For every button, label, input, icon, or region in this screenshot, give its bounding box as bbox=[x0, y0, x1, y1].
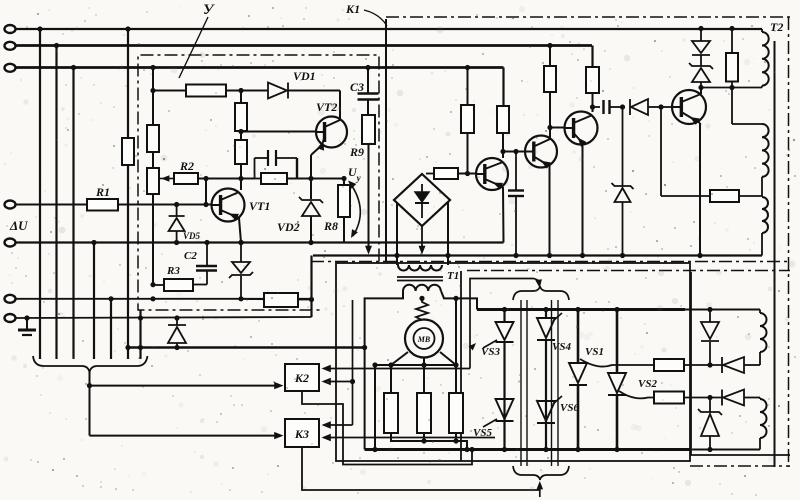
motor module box bbox=[336, 263, 690, 461]
wire T1 left lead bbox=[362, 291, 403, 450]
wire bus v4 bbox=[93, 243, 95, 360]
label VD5 bbox=[183, 231, 201, 241]
wire x661 elbow bbox=[661, 107, 710, 196]
resistor Rb bbox=[586, 67, 599, 112]
resistor Rv1 bbox=[654, 359, 722, 371]
resistor Re bbox=[426, 168, 476, 179]
wire dU upper cont bbox=[118, 204, 212, 206]
wire VT2 emit bbox=[311, 145, 322, 199]
U regulator box bbox=[138, 55, 379, 310]
motor MV zigzag bbox=[416, 296, 428, 320]
resistor Rv6 bbox=[122, 138, 134, 165]
label T1 bbox=[447, 270, 459, 282]
wire brush bus bbox=[372, 362, 456, 367]
svg-text:VT1: VT1 bbox=[249, 199, 270, 213]
thyristor VS3 bbox=[483, 307, 514, 452]
wire rail4 right bbox=[690, 449, 760, 451]
transistor VT2 bbox=[316, 117, 347, 151]
resistor Rc bbox=[497, 106, 509, 158]
relay K3 bbox=[285, 419, 319, 447]
svg-text:VD1: VD1 bbox=[293, 69, 316, 83]
winding T2-2 bbox=[762, 124, 769, 196]
wire rail y299 bbox=[15, 298, 311, 300]
wire bus v2 bbox=[55, 46, 57, 360]
T2 core bbox=[774, 41, 776, 467]
resistor R2 bbox=[159, 173, 212, 184]
right edge dashdot bbox=[788, 17, 790, 467]
svg-text:У: У bbox=[203, 2, 215, 18]
svg-text:R1: R1 bbox=[95, 185, 110, 199]
bridge legs bbox=[394, 202, 450, 265]
transistor Q3 VT5 bbox=[565, 112, 598, 147]
transformer T1 secondary bbox=[403, 285, 441, 291]
wire rail y318 bbox=[15, 317, 312, 318]
transistor VT1 bbox=[212, 189, 245, 246]
wire x622 down bbox=[622, 107, 624, 186]
wire Q1 coll-Q2base bbox=[503, 149, 525, 154]
thyristor VS5 bbox=[483, 399, 514, 427]
wire VT2 coll bbox=[339, 91, 341, 121]
wire branch1 bottom bbox=[580, 359, 654, 367]
label VS4 bbox=[552, 341, 571, 353]
svg-text:К3: К3 bbox=[294, 427, 309, 441]
diode VDs bbox=[630, 99, 672, 115]
diode VD12 bbox=[722, 357, 760, 373]
wire K2 in1 bbox=[322, 279, 535, 373]
capacitor Cs bbox=[604, 100, 626, 114]
wire bus v1 bbox=[39, 29, 41, 359]
wire divider mid bbox=[238, 129, 243, 140]
svg-text:С3: С3 bbox=[350, 80, 364, 94]
diode VD2 zener bbox=[299, 197, 323, 245]
bottom right box bbox=[691, 272, 790, 455]
wire rail2 bbox=[313, 254, 762, 256]
wire K3 in1 bbox=[322, 382, 353, 429]
label R1 bbox=[95, 185, 110, 199]
resistor Rd bbox=[461, 68, 474, 177]
wire Q1 emit bbox=[502, 187, 505, 243]
label VS5 bbox=[473, 427, 492, 439]
resistor Rm2 bbox=[417, 393, 431, 433]
wire rail row3 bbox=[15, 66, 504, 69]
gate brace bottom bbox=[513, 466, 569, 480]
wire rc left bbox=[212, 178, 255, 180]
resistor R4 upper bbox=[147, 125, 159, 168]
svg-text:VS1: VS1 bbox=[585, 346, 604, 358]
wire T1 right lead bbox=[441, 291, 477, 310]
label R2 bbox=[179, 159, 194, 173]
motor MV bbox=[405, 320, 443, 358]
label VD2 bbox=[277, 220, 300, 234]
wire VT2 base bbox=[241, 131, 316, 133]
svg-text:Т1: Т1 bbox=[447, 270, 459, 282]
wire rail row2 bbox=[15, 44, 592, 47]
resistor R8 bbox=[338, 179, 350, 243]
relay K2 bbox=[285, 364, 319, 391]
wire bus v6 bbox=[127, 29, 129, 359]
svg-text:К1: К1 bbox=[345, 2, 360, 16]
wire K2 in2 bbox=[322, 300, 356, 385]
resistor R9 bbox=[362, 115, 375, 247]
motor brush mid bbox=[421, 358, 426, 394]
resistor R1 bbox=[87, 199, 118, 211]
winding T2-4 bbox=[760, 310, 767, 366]
terminal X5 bbox=[5, 239, 16, 247]
svg-text:МВ: МВ bbox=[417, 335, 431, 344]
label C3 bbox=[350, 80, 364, 94]
wire Q3 emit bbox=[580, 143, 585, 258]
wire cap chain bbox=[593, 106, 601, 108]
capacitor C3 bbox=[358, 65, 379, 115]
gate brace top bbox=[513, 286, 569, 300]
rectifier bridge U2 bbox=[394, 174, 450, 226]
resistor Rv2 bbox=[654, 392, 722, 404]
gate arrow bottom bbox=[537, 481, 544, 497]
wire T2-2 top bbox=[732, 88, 762, 125]
resistor R7b bbox=[235, 140, 247, 190]
svg-text:VD2: VD2 bbox=[277, 220, 300, 234]
resistor R6 bbox=[186, 85, 268, 97]
wire rail y347 thick bbox=[127, 346, 365, 349]
label U bbox=[179, 2, 215, 78]
diode VD9 bbox=[692, 26, 710, 55]
label Uy bbox=[348, 165, 362, 183]
wire resistor bottom bus bbox=[391, 433, 470, 452]
resistor Ri bbox=[710, 190, 762, 202]
svg-text:С2: С2 bbox=[184, 250, 197, 262]
wire rail row1 bbox=[15, 28, 762, 30]
wire Q4 emit bbox=[697, 123, 702, 258]
resistor R3 bbox=[150, 279, 193, 301]
wire row3 corner bbox=[465, 65, 504, 106]
svg-text:R9: R9 bbox=[349, 145, 364, 159]
svg-text:VS2: VS2 bbox=[638, 378, 657, 390]
bridge center tap bbox=[419, 226, 426, 255]
wire y87 bbox=[701, 85, 762, 90]
svg-text:VS4: VS4 bbox=[552, 341, 571, 353]
wire K3 out bbox=[302, 447, 539, 490]
svg-text:VS6: VS6 bbox=[560, 402, 579, 414]
diode VD13 bbox=[707, 390, 760, 406]
capacitor C2 bbox=[193, 240, 217, 285]
diode VD10 zener bbox=[689, 55, 713, 90]
bottom right dashdot bbox=[690, 465, 790, 467]
wire K3 in2 bbox=[322, 434, 496, 441]
svg-text:R2: R2 bbox=[179, 159, 194, 173]
terminal X2 bbox=[5, 42, 16, 50]
resistor Rfb bbox=[255, 173, 312, 184]
transistor Q2 VT4 bbox=[525, 136, 557, 169]
terminal X6 bbox=[5, 295, 16, 303]
label VS6 bbox=[560, 402, 579, 414]
wire R2 to base bbox=[203, 176, 208, 207]
resistor Rk bbox=[726, 26, 738, 88]
wire rail y242 bbox=[15, 241, 504, 243]
wire u-top bbox=[150, 65, 155, 125]
thyristor box dashdot bbox=[467, 270, 790, 272]
wire K2 out bbox=[302, 391, 475, 465]
diode VD14 zener bbox=[698, 398, 722, 453]
diode VD11 bbox=[701, 310, 719, 368]
motor brush right bbox=[440, 352, 459, 368]
thyristor VS6 bbox=[537, 396, 562, 423]
transistor Q1 VT3 bbox=[476, 158, 508, 190]
box bottom dashdot bbox=[311, 261, 790, 263]
label VS2 bbox=[638, 378, 657, 390]
svg-text:R8: R8 bbox=[323, 219, 338, 233]
wire branch2 top bbox=[619, 391, 654, 398]
resistor Rm1 bbox=[384, 365, 398, 433]
terminal X4 bbox=[5, 201, 16, 209]
label VS1 bbox=[585, 346, 604, 358]
thyristor VS2 bbox=[608, 307, 626, 452]
wire dU upper bbox=[15, 204, 87, 206]
node bus dots bbox=[37, 26, 143, 350]
label R9 bbox=[349, 145, 364, 159]
wire branch1 top bbox=[685, 307, 760, 312]
transformer T1 primary bbox=[397, 256, 448, 271]
wire Q3 base bbox=[550, 127, 565, 129]
resistor R7a bbox=[235, 103, 247, 131]
label VS3 bbox=[469, 343, 501, 358]
motor brush left bbox=[388, 352, 408, 368]
gate bundle lines bbox=[521, 300, 558, 466]
wire bus v7 bbox=[139, 310, 141, 359]
label VD1 bbox=[293, 69, 316, 83]
winding T2-5 bbox=[760, 398, 767, 450]
wire rail4 bbox=[365, 448, 690, 451]
svg-text:VS3: VS3 bbox=[481, 346, 500, 358]
resistor R10 bbox=[264, 256, 314, 318]
terminal X3 bbox=[5, 64, 16, 72]
wire bus v3 bbox=[72, 68, 74, 360]
wire divider top bbox=[238, 88, 243, 103]
thyristor VS1 bbox=[569, 307, 587, 452]
wire rc to R8 bbox=[308, 176, 346, 181]
diode VD6 bbox=[229, 240, 253, 302]
capacitor Cb bbox=[508, 152, 524, 259]
svg-text:Т2: Т2 bbox=[770, 20, 783, 34]
resistor Rm3 bbox=[449, 296, 463, 433]
label VT1 bbox=[249, 199, 270, 213]
thyristor VS4 bbox=[537, 307, 562, 452]
svg-text:R3: R3 bbox=[166, 265, 180, 277]
diode VD7 bbox=[168, 315, 186, 350]
winding T2-3 bbox=[762, 197, 768, 256]
terminal X1 bbox=[5, 25, 16, 33]
K1 box bbox=[386, 17, 790, 261]
T1 core bbox=[397, 277, 443, 281]
diode VD8 zener bbox=[612, 183, 634, 258]
wire y90 left bbox=[150, 88, 186, 93]
wire y299 to up bbox=[240, 298, 264, 300]
resistor R5 pot bbox=[147, 168, 159, 285]
transistor Q4 VT6 bbox=[672, 90, 706, 125]
capacitor C4 branch bbox=[255, 150, 298, 179]
wire brace tail bbox=[87, 372, 92, 436]
node R9 tail arrow bbox=[365, 246, 372, 255]
gate arrow top bbox=[534, 279, 542, 289]
label R3 bbox=[166, 265, 180, 277]
terminal X7 bbox=[5, 314, 16, 322]
arrow Uy measure bbox=[348, 181, 360, 239]
winding T2-1 bbox=[762, 29, 769, 88]
wire rail3 bbox=[477, 308, 685, 311]
label dU bbox=[9, 218, 28, 233]
wire to K3 bbox=[90, 432, 284, 439]
label T2 bbox=[770, 20, 783, 34]
resistor Ra bbox=[544, 46, 556, 139]
label K1 bbox=[345, 2, 387, 26]
svg-text:К2: К2 bbox=[294, 371, 309, 385]
wire bundle brace bbox=[33, 356, 148, 372]
wire bus v5 bbox=[110, 299, 112, 359]
ground bbox=[18, 315, 36, 335]
wire to K2 bbox=[90, 382, 284, 389]
wire row2 corner bbox=[547, 43, 592, 67]
wire x375 down bbox=[372, 365, 377, 452]
wire Q2 emit bbox=[547, 166, 552, 258]
svg-text:ΔU: ΔU bbox=[9, 218, 28, 233]
label R8 bbox=[323, 219, 338, 233]
divider x461 bbox=[460, 271, 462, 461]
diode VD5 bbox=[169, 202, 185, 245]
label VT2 bbox=[316, 100, 337, 114]
wire Q4 coll bbox=[700, 88, 702, 95]
label C2 bbox=[184, 250, 197, 262]
diode VD1 bbox=[268, 83, 340, 99]
